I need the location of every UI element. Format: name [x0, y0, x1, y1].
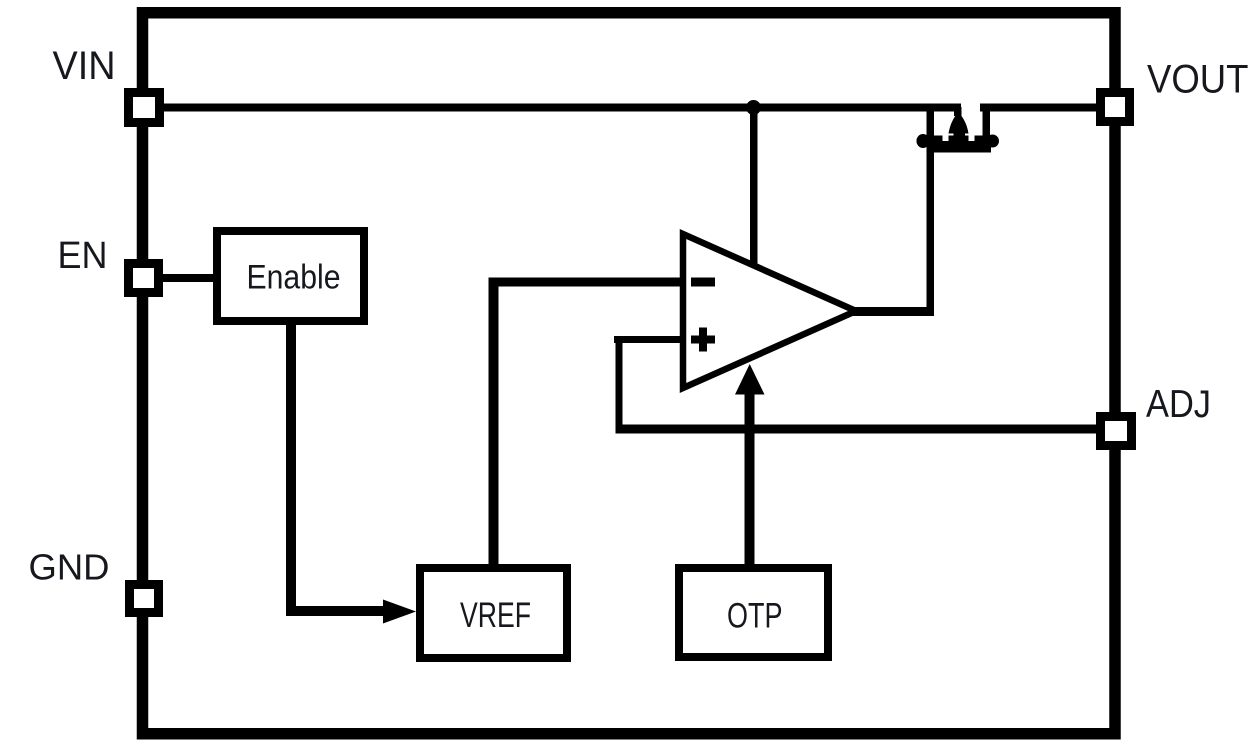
transistor Q1 channel bar notch right: [969, 136, 975, 142]
svg-text:Enable: Enable: [247, 259, 341, 297]
transistor Q1 source stub from VIN rail: [954, 107, 962, 116]
transistor Q1 stub below arrow: [954, 130, 966, 138]
junction J1 on VIN rail: [746, 100, 761, 115]
transistor Q1 body arrow (pointing up): [949, 113, 969, 134]
wire ADJ net (horizontal to ADJ pin): [616, 425, 1097, 434]
pin VIN terminal square: [129, 93, 160, 123]
wire drain to VOUT pin: [980, 104, 1096, 112]
transistor Q1 channel bar left cap bump: [917, 134, 930, 148]
block VREF: [420, 568, 567, 658]
wire non-inverting corner down to ADJ net: [616, 336, 623, 429]
op-amp U1 error amplifier triangle: [683, 234, 856, 388]
transistor Q1 channel bar: [917, 136, 999, 147]
pin VOUT terminal square: [1101, 93, 1130, 122]
op-amp U1 inverting input minus symbol: [691, 278, 715, 287]
arrowhead into VREF: [383, 600, 416, 624]
svg-text:VOUT: VOUT: [1147, 58, 1249, 102]
transistor Q1 drain vertical to VOUT wire: [983, 107, 991, 137]
arrowhead OTP into op-amp: [735, 364, 765, 395]
svg-text:ADJ: ADJ: [1146, 383, 1211, 426]
wire non-inverting input (horizontal): [614, 336, 684, 343]
wire inverting input (horizontal): [489, 278, 685, 287]
pin ADJ terminal square: [1101, 417, 1132, 446]
svg-text:GND: GND: [29, 547, 110, 588]
chip outline border: [143, 13, 1116, 734]
wire Enable to VREF (horizontal): [286, 606, 384, 616]
pin GND terminal square: [130, 585, 159, 613]
op-amp U1 non-inverting input plus symbol: [691, 328, 715, 352]
block OTP: [679, 568, 828, 657]
svg-text:OTP: OTP: [727, 597, 783, 636]
block Enable: [217, 231, 364, 321]
wire EN pin to Enable block: [163, 274, 215, 282]
wire VREF up to inverting input (vertical): [489, 278, 499, 568]
transistor Q1 channel bar notch left: [943, 136, 949, 142]
svg-text:EN: EN: [58, 235, 108, 277]
wire junction J1 down to op-amp U1 top edge: [750, 107, 758, 268]
pin EN terminal square: [129, 264, 159, 293]
wire op-amp output (horizontal): [852, 307, 934, 316]
wire VIN rail (top horizontal from VIN pin to pass transistor source): [163, 104, 961, 112]
wire Enable block down: [286, 325, 296, 616]
wire OTP up to op-amp (vertical): [745, 390, 755, 568]
svg-text:VIN: VIN: [53, 44, 116, 88]
transistor Q1 gate electrode line: [933, 145, 991, 153]
wire op-amp output to transistor gate (vertical): [927, 107, 935, 315]
transistor Q1 channel bar right cap bump: [986, 135, 999, 148]
svg-text:VREF: VREF: [460, 596, 531, 635]
